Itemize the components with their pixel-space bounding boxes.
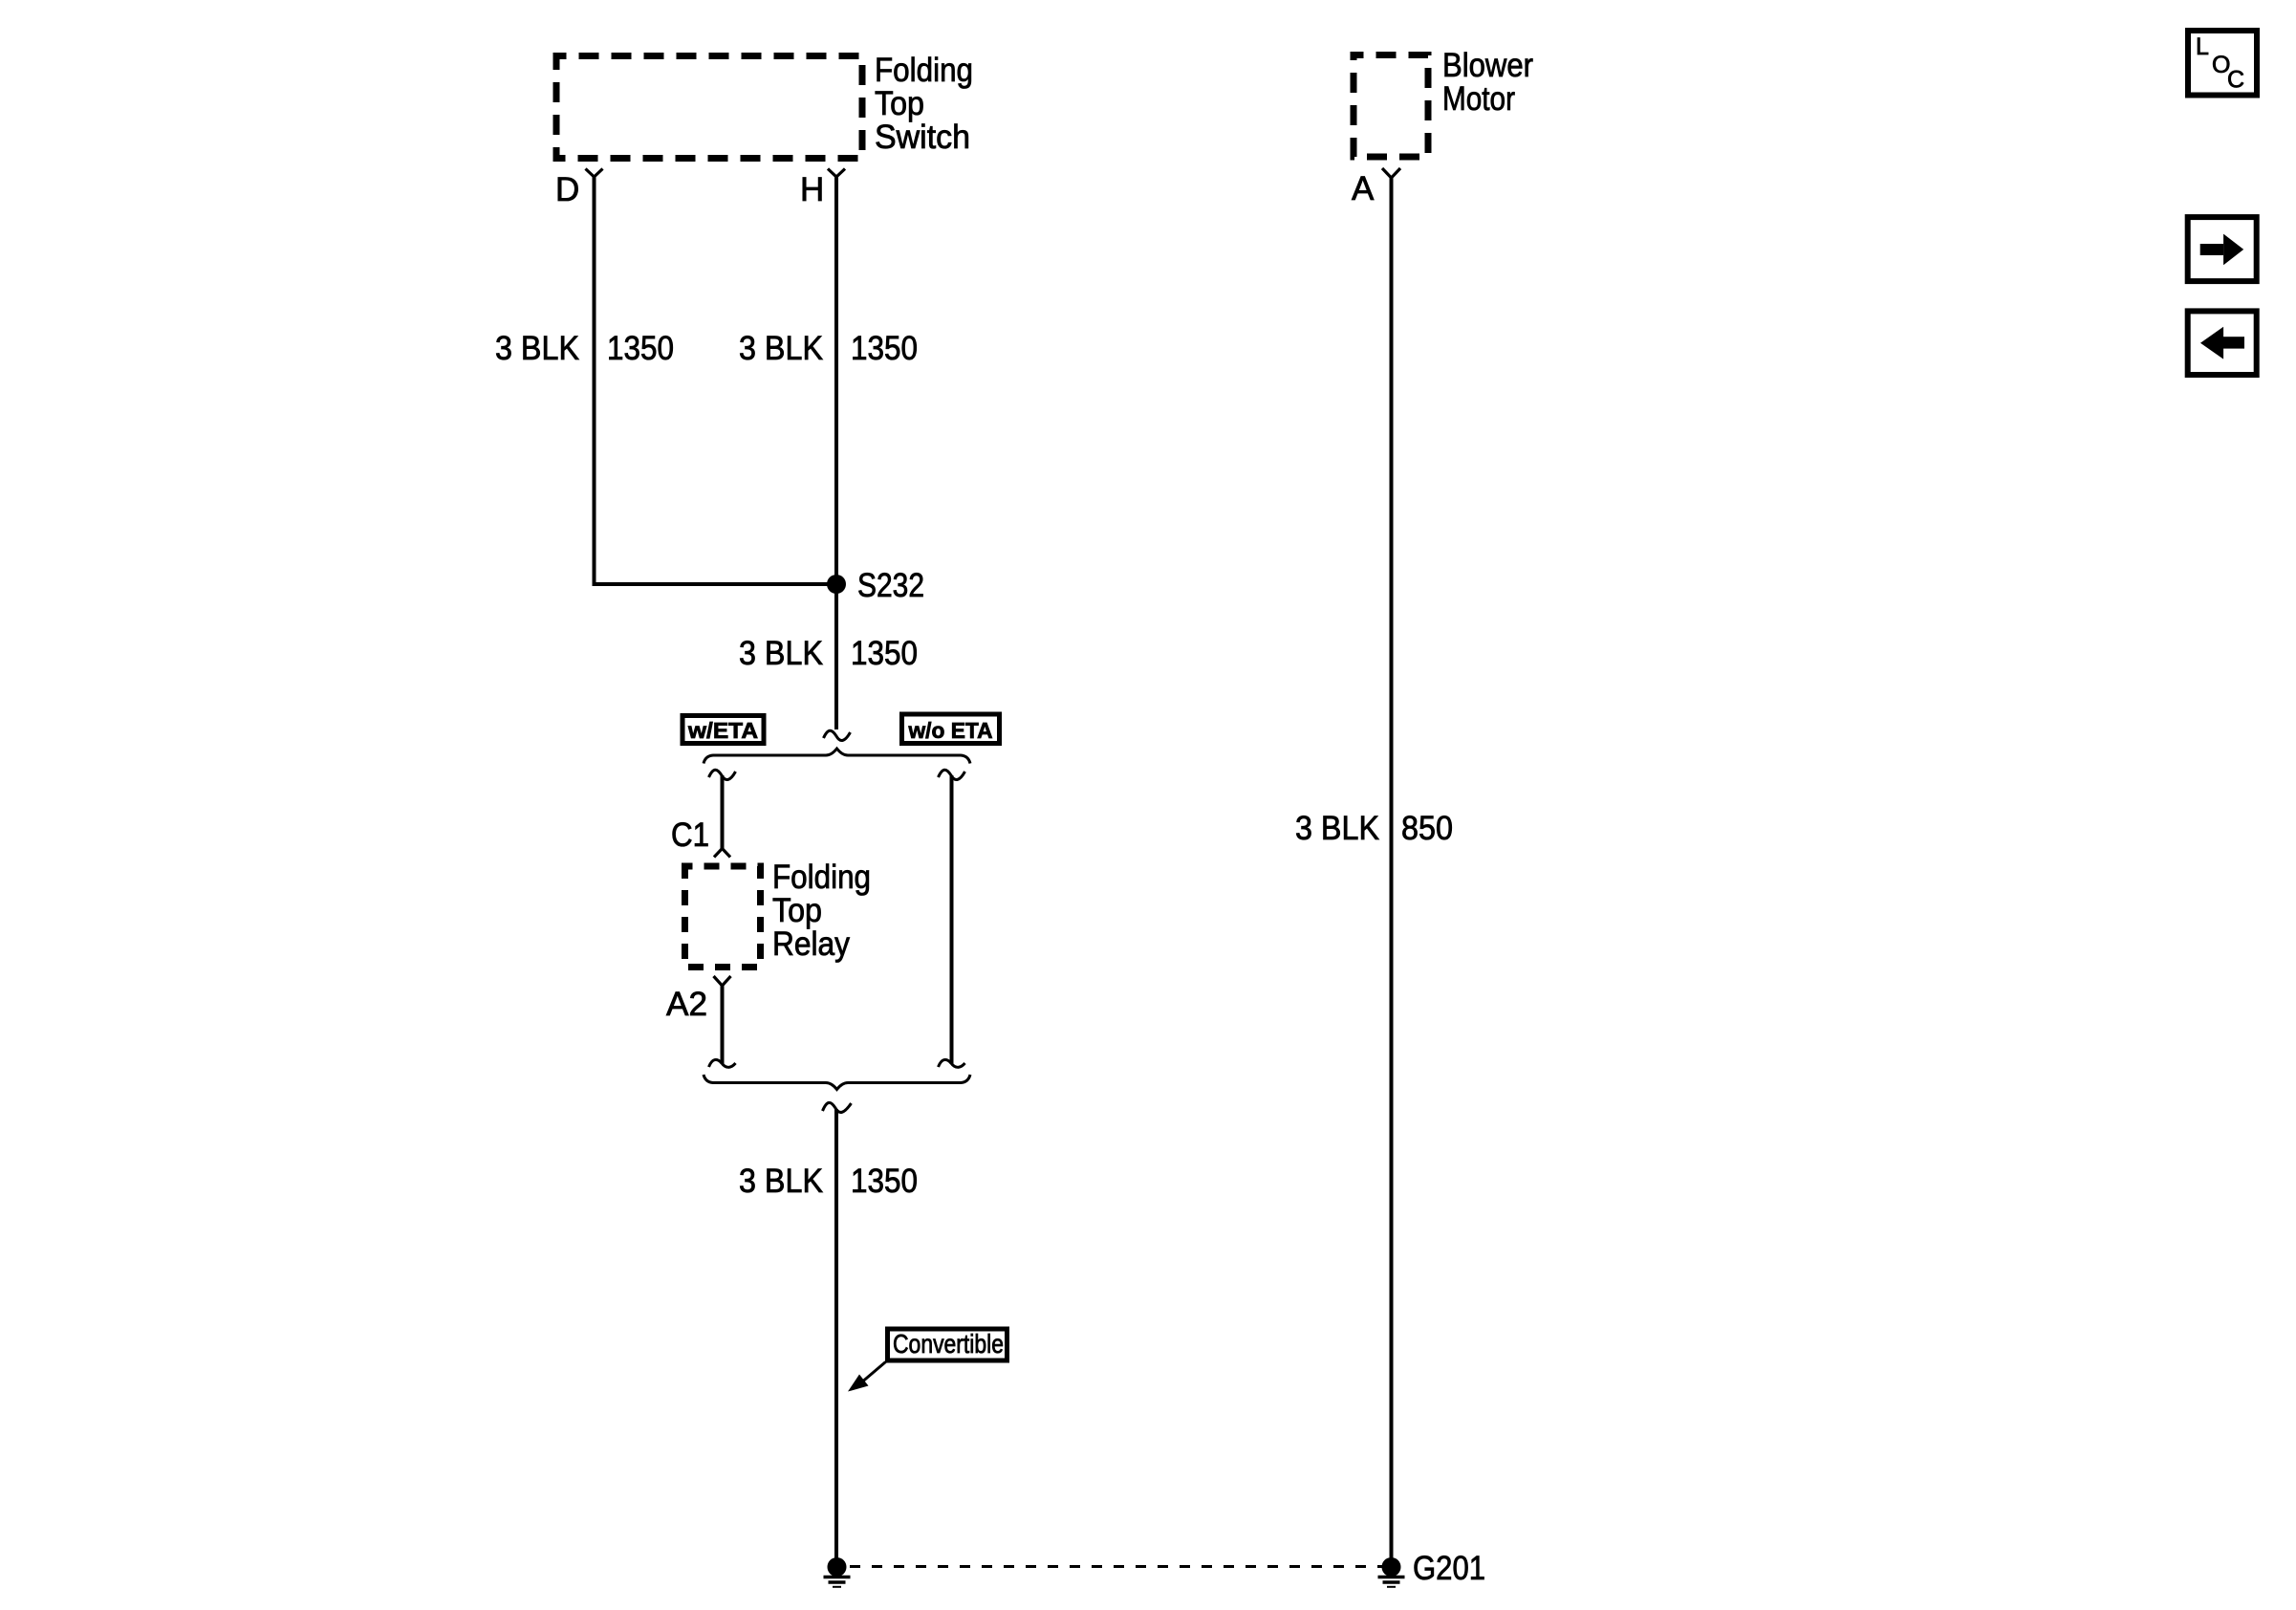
svg-text:G201: G201	[1413, 1550, 1485, 1587]
svg-text:Relay: Relay	[772, 925, 850, 963]
svg-text:A: A	[1352, 170, 1375, 207]
svg-text:Blower: Blower	[1442, 47, 1533, 84]
svg-text:850: 850	[1401, 810, 1453, 847]
svg-text:3 BLK: 3 BLK	[739, 635, 823, 672]
svg-text:H: H	[800, 171, 824, 208]
svg-text:3 BLK: 3 BLK	[739, 330, 823, 367]
svg-text:3 BLK: 3 BLK	[739, 1163, 823, 1200]
svg-text:1350: 1350	[851, 330, 918, 367]
svg-text:Top: Top	[772, 892, 822, 929]
svg-text:Top: Top	[875, 85, 924, 122]
svg-text:L: L	[2196, 33, 2209, 60]
svg-text:1350: 1350	[851, 1163, 918, 1200]
svg-text:A2: A2	[666, 986, 707, 1023]
svg-text:3 BLK: 3 BLK	[495, 330, 579, 367]
svg-text:3 BLK: 3 BLK	[1295, 810, 1379, 847]
svg-text:1350: 1350	[851, 635, 918, 672]
svg-text:w/o ETA: w/o ETA	[908, 718, 993, 743]
svg-text:Switch: Switch	[875, 119, 970, 156]
svg-text:D: D	[555, 171, 579, 208]
svg-text:S232: S232	[857, 567, 924, 604]
svg-text:C1: C1	[671, 816, 709, 854]
svg-text:Motor: Motor	[1442, 80, 1515, 118]
svg-text:Folding: Folding	[772, 859, 871, 896]
svg-text:1350: 1350	[607, 330, 674, 367]
svg-text:C: C	[2227, 67, 2244, 94]
svg-text:Convertible: Convertible	[893, 1329, 1004, 1359]
svg-text:w/ETA: w/ETA	[687, 718, 758, 743]
svg-text:Folding: Folding	[875, 52, 973, 89]
